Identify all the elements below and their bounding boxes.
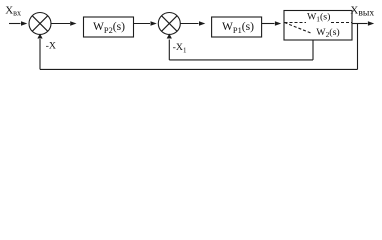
arrowhead into WP1 xyxy=(199,21,205,26)
inner feedback right vertical xyxy=(312,40,314,60)
arrowhead up into S1 xyxy=(37,34,42,39)
output wire Xvyx xyxy=(352,23,368,25)
wire WP1 to plant xyxy=(262,23,275,25)
dashed split line left xyxy=(285,22,307,24)
node Xvx input wire xyxy=(9,23,21,25)
inner feedback bottom wire xyxy=(169,59,313,61)
dashed diagonal W2 branch xyxy=(285,23,313,34)
arrowhead into S2 xyxy=(151,21,157,26)
arrowhead input xyxy=(21,21,27,26)
wire S2 to WP1 xyxy=(180,23,198,25)
arrowhead into WP2 xyxy=(70,21,76,26)
inner feedback left vertical xyxy=(168,40,170,60)
block WP1 xyxy=(212,17,262,37)
svg-text:Xвых: Xвых xyxy=(350,5,374,19)
dashed split line right xyxy=(331,22,352,24)
outer feedback left vertical xyxy=(39,39,41,69)
summer S1 xyxy=(29,13,51,35)
wire WP2 to S2 xyxy=(134,23,151,25)
block WP2 xyxy=(84,17,134,37)
summer S2 xyxy=(158,13,180,35)
arrowhead up into S2 xyxy=(167,34,172,39)
arrowhead output xyxy=(368,21,374,26)
arrowhead into plant xyxy=(275,21,281,26)
outer feedback bottom wire xyxy=(40,68,358,70)
svg-text:-X: -X xyxy=(46,41,56,52)
block plant W1/W2 xyxy=(284,11,352,41)
outer feedback tap vertical xyxy=(357,24,359,70)
wire S1 to WP2 xyxy=(51,23,70,25)
